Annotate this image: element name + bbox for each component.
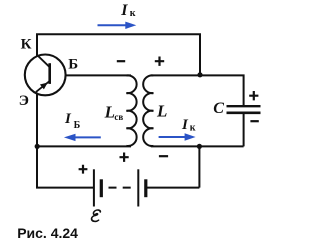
svg-text:I: I (120, 2, 128, 19)
battery cell 2 short plate (144, 179, 147, 197)
svg-text:I: I (181, 117, 189, 133)
sign plus below Lsv (120, 153, 129, 162)
sign minus above Lsv (117, 60, 125, 62)
junction node emitter/Lsv (35, 144, 40, 149)
inductor L coil (4 loops, bulge left) (143, 75, 153, 146)
junction node bottom rail (197, 144, 202, 149)
transistor collector diagonal (37, 55, 50, 67)
current arrow Ik middle (blue, right) (159, 133, 196, 140)
battery cell 2 long plate (137, 169, 139, 206)
transistor Q1 circle (25, 55, 66, 96)
battery cell 1 long plate (+) (93, 169, 95, 206)
svg-text:Рис. 4.24: Рис. 4.24 (17, 225, 78, 241)
current arrow Ib (blue, left) (64, 134, 101, 141)
svg-text:св: св (114, 112, 123, 122)
svg-text:к: к (190, 123, 196, 134)
wire collector loop: from transistor collector up, across top, down right (37, 34, 200, 75)
wire tank bottom rail: L bottom to C bottom (151, 145, 244, 147)
sign plus at C top (249, 91, 258, 100)
inductor Lsv coil (4 loops, bulge right) (126, 75, 136, 146)
svg-text:L: L (156, 102, 167, 121)
svg-text:к: к (130, 8, 136, 19)
svg-text:I: I (64, 111, 72, 127)
EMF script E symbol (91, 210, 101, 221)
wire C bottom lead (243, 114, 245, 146)
wire riser to bottom rail junction (198, 146, 200, 187)
transistor base bar (48, 63, 51, 84)
wire bottom left to battery (36, 187, 94, 189)
battery cell 1 short plate (100, 179, 103, 197)
sign minus below L (159, 155, 168, 157)
svg-text:Э: Э (19, 93, 29, 109)
svg-text:К: К (21, 36, 32, 52)
svg-text:Б: Б (68, 57, 78, 73)
junction node top (collector to tank) (197, 72, 202, 77)
svg-text:L: L (104, 103, 115, 122)
sign plus at battery (79, 165, 88, 174)
wire tank top rail: L top to C top (151, 75, 244, 105)
sign plus above L (155, 57, 164, 66)
transistor emitter diagonal with arrow to base (36, 81, 50, 92)
wire bottom right from battery to riser (147, 187, 200, 189)
wire emitter vertical (36, 93, 38, 188)
sign minus at C bottom (250, 120, 258, 122)
svg-text:Б: Б (74, 120, 81, 131)
svg-text:C: C (213, 100, 224, 117)
current arrow Ik top (blue, right) (98, 22, 137, 29)
battery dashed link (109, 187, 131, 189)
wire base: transistor base to Lsv top (65, 74, 131, 76)
wire Lsv bottom to emitter junction (37, 145, 131, 147)
capacitor C plates (227, 106, 261, 113)
